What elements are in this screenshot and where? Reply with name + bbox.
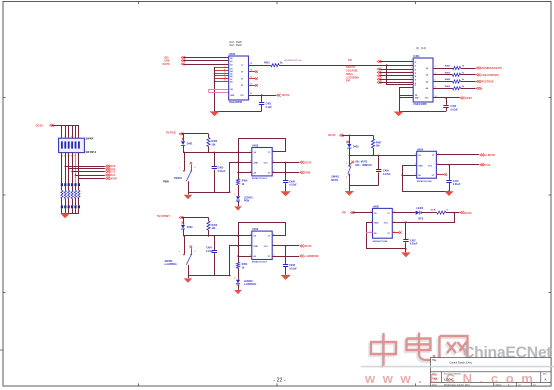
title block bbox=[431, 358, 552, 387]
wire cap branch bbox=[214, 236, 216, 250]
svg-text:e-HARDOn: e-HARDOn bbox=[244, 283, 257, 286]
wire EIP to U401 bbox=[379, 82, 413, 84]
wire loop to inverter 1Y pin bbox=[272, 235, 286, 237]
wire cap to ground bbox=[405, 242, 407, 252]
wire node to inverter input bbox=[183, 235, 252, 237]
wire cap to rail bbox=[378, 172, 380, 185]
wire SW400 column 3 lower bbox=[68, 153, 70, 184]
wire LED to resistor bbox=[422, 212, 437, 214]
capacitor C406 0.01uF bbox=[283, 181, 297, 187]
IC U405 bbox=[370, 204, 394, 243]
node DC3V bbox=[460, 211, 464, 214]
svg-text:D400: D400 bbox=[187, 226, 193, 229]
svg-text:GND: GND bbox=[253, 162, 258, 164]
IC U401 bbox=[413, 54, 433, 106]
svg-text:SN74LVC1G14: SN74LVC1G14 bbox=[252, 261, 268, 264]
svg-text:0.01uF: 0.01uF bbox=[206, 250, 214, 253]
svg-text:DPCSTRCK: DPCSTRCK bbox=[480, 81, 494, 84]
svg-text:I2: I2 bbox=[415, 69, 417, 71]
resistor network column 5 (pads + resistor) bbox=[74, 183, 76, 213]
svg-text:Control Switch & Key: Control Switch & Key bbox=[450, 362, 473, 365]
svg-text:PWR: PWR bbox=[163, 181, 169, 184]
resistor R405 bbox=[445, 85, 465, 90]
wire switch to ground rail bbox=[188, 181, 190, 192]
node DC3V bbox=[480, 163, 484, 166]
svg-text:4: 4 bbox=[224, 68, 225, 71]
wire SW400 column 4 lower bbox=[72, 153, 74, 184]
wire R402 to net label bbox=[461, 68, 476, 70]
svg-text:1: 1 bbox=[411, 60, 412, 62]
wire cap to ground bbox=[285, 267, 287, 275]
switch SW402 bbox=[163, 152, 195, 184]
svg-text:A2: A2 bbox=[230, 63, 232, 66]
wire SW400 column 3 upper bbox=[68, 125, 70, 138]
svg-text:6: 6 bbox=[273, 150, 274, 152]
wire branch to SDA0 bbox=[65, 166, 105, 168]
svg-text:SW-DP: SW-DP bbox=[109, 177, 118, 180]
wire SW400 column 5 upper bbox=[75, 125, 77, 138]
wire branch to SW-DP bbox=[79, 178, 105, 180]
node DC3V bbox=[300, 245, 304, 248]
ground (LED chain) bbox=[234, 206, 242, 210]
svg-text:2: 2 bbox=[370, 211, 371, 213]
wire U400 output 1Y bbox=[249, 65, 271, 67]
wire inverter 2A branch bbox=[238, 256, 252, 258]
resistor R404 1k bbox=[236, 262, 248, 269]
node SW-DP bbox=[105, 177, 109, 180]
wire VCC out bbox=[272, 245, 299, 247]
wire feedback loop over IC bbox=[239, 139, 286, 153]
svg-text:I4: I4 bbox=[415, 75, 417, 78]
wire OE1 pink bbox=[209, 89, 229, 91]
no-connect X bbox=[255, 70, 258, 73]
wire loop to inverter 1Y pin bbox=[272, 151, 286, 153]
svg-text:KEY2: KEY2 bbox=[109, 171, 116, 174]
svg-text:U404: U404 bbox=[417, 147, 424, 151]
wire U400 no-connect stub pin 14 bbox=[249, 78, 256, 80]
svg-text:SN74LVC1G14: SN74LVC1G14 bbox=[252, 177, 268, 180]
wire U400 input stub pin 7 bbox=[215, 81, 229, 83]
svg-text:18: 18 bbox=[250, 63, 252, 65]
svg-text:1k: 1k bbox=[242, 183, 245, 186]
wire bus vertical to ground (U400 inputs) bbox=[214, 68, 216, 111]
wire inverter GND routing bbox=[230, 246, 252, 276]
ground (U401) bbox=[394, 112, 404, 117]
wire U400 VCC to DC3V bbox=[249, 95, 277, 97]
wire LOTSROM to U401 bbox=[379, 79, 413, 81]
svg-text:SA(R)IR/DA/KEYPL: SA(R)IR/DA/KEYPL bbox=[480, 67, 503, 70]
LED LE400 bbox=[416, 207, 424, 220]
svg-text:5V-PCB: 5V-PCB bbox=[166, 131, 176, 135]
wire decoupling cap branch bbox=[285, 246, 287, 264]
svg-text:SA-MUTE: SA-MUTE bbox=[483, 153, 495, 157]
wire SW400 column 1 lower bbox=[61, 153, 63, 184]
no-connect X bbox=[255, 77, 258, 80]
svg-text:8: 8 bbox=[435, 87, 436, 89]
wire branch to KEY2 bbox=[72, 171, 105, 173]
wire switch to ground rail bbox=[188, 265, 190, 276]
resistor R406 1k bbox=[236, 179, 248, 186]
border zone tick left bbox=[0, 98, 6, 351]
svg-text:DC3V: DC3V bbox=[465, 96, 473, 100]
svg-text:IN.: IN. bbox=[480, 87, 484, 90]
wire diode to node bbox=[183, 229, 185, 236]
capacitor C405 0.01uF bbox=[212, 167, 226, 173]
resistor R408 bbox=[430, 210, 448, 215]
wire supply rail bbox=[181, 217, 208, 219]
IC U404 bbox=[415, 147, 439, 183]
svg-text:0.01uF: 0.01uF bbox=[289, 184, 297, 187]
wire resistor to LED bbox=[238, 268, 240, 279]
wire cap branch bbox=[261, 95, 263, 102]
resistor network column 4 (pads + resistor) bbox=[71, 183, 73, 213]
node SA-MUTE bbox=[480, 154, 484, 157]
svg-text:12: 12 bbox=[250, 83, 252, 85]
wire U400 no-connect stub pin 16 bbox=[249, 71, 256, 73]
ground (switch) bbox=[184, 195, 193, 199]
node DC3V bbox=[300, 161, 304, 164]
wire SCPS to U400 pin bbox=[183, 64, 229, 66]
switch SW401 bbox=[331, 155, 372, 181]
svg-text:10k: 10k bbox=[211, 227, 216, 230]
svg-text:U401: U401 bbox=[413, 54, 420, 58]
ground (DIP block) bbox=[60, 213, 70, 218]
wire cap branch bbox=[446, 98, 448, 105]
svg-text:R402: R402 bbox=[445, 65, 451, 68]
svg-text:PR: PR bbox=[342, 211, 346, 215]
wire U400 no-connect stub pin 12 bbox=[249, 85, 256, 87]
svg-text:DC3V: DC3V bbox=[464, 211, 471, 215]
svg-text:e-HARDOn: e-HARDOn bbox=[165, 263, 178, 266]
svg-text:PSW: PSW bbox=[304, 171, 311, 175]
resistor R407 10k bbox=[371, 135, 382, 155]
wire diode to node bbox=[183, 146, 185, 153]
wire diode branch bbox=[183, 134, 185, 141]
wire SW400 column 6 upper bbox=[78, 125, 80, 138]
resistor network column 6 (pads + resistor) bbox=[78, 183, 80, 213]
svg-text:LE400: LE400 bbox=[416, 207, 423, 210]
svg-text:SerR: SerR bbox=[430, 210, 436, 212]
wire U404 2Y stub no-connect bbox=[436, 174, 444, 176]
wire cap branch bbox=[214, 152, 216, 166]
svg-text:U400: U400 bbox=[229, 52, 236, 56]
svg-text:SW DIP-6: SW DIP-6 bbox=[86, 151, 97, 154]
wire U404 output to MUTE bbox=[436, 154, 479, 156]
node DC3V off-page bbox=[277, 94, 281, 97]
wire pink join bbox=[208, 89, 210, 92]
node KEY2 bbox=[105, 170, 109, 173]
svg-text:I3: I3 bbox=[415, 73, 417, 75]
wire ground rail bbox=[188, 275, 230, 277]
svg-text:R401: R401 bbox=[264, 61, 270, 64]
wire U401 VCC to DC3V bbox=[433, 97, 460, 99]
svg-text:1: 1 bbox=[179, 168, 180, 170]
ground (mute switch) bbox=[345, 191, 354, 196]
wire U400 input stub pin 3 bbox=[215, 70, 229, 72]
svg-text:A7: A7 bbox=[230, 78, 232, 81]
capacitor C408 0.01uF bbox=[283, 264, 297, 270]
svg-text:12: 12 bbox=[224, 80, 226, 82]
ground (U405) bbox=[401, 252, 410, 257]
node e-HARDON bbox=[300, 255, 304, 258]
wire inverter GND routing bbox=[230, 163, 252, 193]
svg-text:4: 4 bbox=[273, 253, 274, 256]
svg-text:GND: GND bbox=[230, 95, 235, 97]
watermark separator line bbox=[361, 366, 554, 368]
svg-text:0.01uF: 0.01uF bbox=[453, 183, 461, 186]
svg-text:EIP: EIP bbox=[346, 80, 350, 83]
resistor network column 2 (pads + resistor) bbox=[64, 183, 66, 213]
svg-text:10k: 10k bbox=[211, 143, 216, 146]
svg-text:DC3V: DC3V bbox=[483, 163, 490, 167]
resistor R403 bbox=[445, 72, 465, 77]
wire node to U404 input bbox=[349, 155, 416, 157]
svg-text:6: 6 bbox=[435, 80, 436, 82]
svg-text:I0: I0 bbox=[415, 62, 417, 64]
svg-text:[1] : [14]: [1] : [14] bbox=[416, 46, 426, 50]
wire diode to node bbox=[349, 148, 351, 155]
wire cap to ground rail bbox=[446, 108, 448, 112]
wire supply rail bbox=[181, 133, 208, 135]
svg-text:D402: D402 bbox=[353, 146, 359, 149]
capacitor C409 0.47uF bbox=[376, 170, 391, 176]
svg-text:1k: 1k bbox=[280, 61, 283, 64]
svg-text:VCC: VCC bbox=[264, 246, 269, 248]
svg-text:0.01uF: 0.01uF bbox=[218, 170, 226, 173]
diode D400 bbox=[181, 225, 193, 229]
svg-text:SW402: SW402 bbox=[174, 177, 183, 180]
svg-text:- 22 -: - 22 - bbox=[273, 378, 285, 384]
wire CSB to U400 pin bbox=[183, 60, 229, 62]
svg-text:74HC244PW: 74HC244PW bbox=[413, 103, 427, 106]
ground (inverter) bbox=[280, 191, 290, 196]
svg-text:A5: A5 bbox=[230, 73, 232, 76]
wire U401 GND stub bbox=[400, 97, 414, 99]
wire cap to ground bbox=[449, 183, 451, 191]
svg-text:U405: U405 bbox=[373, 204, 380, 208]
wire U400 input stub pin 6 bbox=[215, 78, 229, 80]
wire U405 2Y stub no-connect bbox=[392, 232, 399, 234]
svg-text:SN74LVC1G04: SN74LVC1G04 bbox=[373, 240, 389, 243]
capacitor C407 0.01uF bbox=[403, 239, 418, 245]
svg-text:A: A bbox=[545, 377, 547, 381]
switch SW400 bbox=[165, 235, 196, 266]
svg-text:4: 4 bbox=[435, 72, 436, 75]
svg-text:DC3V: DC3V bbox=[282, 93, 290, 97]
wire SW400 column 2 upper bbox=[65, 125, 67, 138]
svg-text:20: 20 bbox=[250, 93, 252, 95]
wire U400 input stub pin 5 bbox=[215, 75, 229, 77]
wire branch down to U401 pin 7 bbox=[387, 66, 414, 85]
diode D402 bbox=[347, 144, 359, 149]
ground (switch) bbox=[184, 278, 193, 282]
wire ground rail U400 bbox=[215, 111, 262, 113]
node DPCSTRCK bbox=[476, 80, 480, 83]
capacitor C401 bbox=[259, 103, 272, 109]
ground (U400) bbox=[210, 111, 220, 116]
svg-text:1: 1 bbox=[250, 234, 251, 236]
wire ground rail U401 bbox=[400, 111, 446, 113]
node SDA1 bbox=[105, 174, 109, 177]
wire ISO to U400 pin bbox=[183, 57, 229, 59]
watermark chinese characters (drawn strokes, with soft shadow) bbox=[369, 335, 466, 369]
svg-text:3: 3 bbox=[250, 244, 251, 246]
svg-text:SN74LVC1G04: SN74LVC1G04 bbox=[417, 180, 433, 183]
svg-text:3: 3 bbox=[250, 161, 251, 163]
resistor R405 10k bbox=[207, 134, 218, 152]
wire feedback loop over IC bbox=[239, 223, 286, 236]
node PSW bbox=[300, 171, 304, 174]
wire R401 to U401 pin 2 (long) bbox=[279, 65, 413, 67]
no-ERC mark bbox=[182, 138, 184, 140]
svg-text:2: 2 bbox=[194, 251, 195, 253]
wire branch to SDA1 bbox=[76, 175, 105, 177]
svg-text:ON : MUTE: ON : MUTE bbox=[355, 161, 368, 163]
svg-text:3: 3 bbox=[411, 67, 412, 69]
svg-text:5: 5 bbox=[250, 254, 251, 256]
svg-text:5: 5 bbox=[411, 74, 412, 76]
resistor R401 bbox=[264, 61, 283, 67]
wire cap branch bbox=[378, 155, 380, 169]
svg-text:0.47uF: 0.47uF bbox=[383, 173, 391, 176]
wire output net bbox=[272, 172, 299, 174]
ground (U404) bbox=[444, 191, 453, 196]
wire resistor to LED bbox=[238, 185, 240, 196]
svg-text:2: 2 bbox=[435, 66, 436, 68]
wire VCC out bbox=[272, 162, 299, 164]
svg-text:6: 6 bbox=[273, 234, 274, 236]
svg-text:GND: GND bbox=[418, 165, 423, 167]
resistor network column 3 (pads + resistor) bbox=[68, 183, 70, 213]
wire U401 output pin 6 bbox=[433, 81, 453, 83]
svg-text:1: 1 bbox=[346, 163, 347, 165]
svg-text:2: 2 bbox=[346, 177, 347, 179]
svg-text:PR: PR bbox=[348, 58, 352, 62]
op-amp/inverter U402 bbox=[250, 143, 274, 180]
wire U404 GND loop bbox=[403, 166, 450, 192]
svg-text:10k: 10k bbox=[376, 145, 381, 148]
svg-text:SW404: SW404 bbox=[86, 138, 95, 141]
svg-text:R405: R405 bbox=[445, 85, 451, 88]
wire U401 output pin 4 bbox=[433, 74, 453, 76]
resistor R404 bbox=[445, 78, 465, 83]
wire U401 pin 8 loop bbox=[400, 88, 414, 112]
capacitor C410 0.01uF bbox=[446, 180, 461, 186]
wire diode branch bbox=[349, 135, 351, 143]
svg-text:A1: A1 bbox=[230, 60, 232, 63]
svg-text:0.01uF: 0.01uF bbox=[289, 267, 297, 270]
junction at bus branch bbox=[386, 64, 388, 66]
svg-text:2: 2 bbox=[194, 167, 195, 169]
ground (inverter) bbox=[280, 275, 290, 280]
svg-text:U402: U402 bbox=[252, 143, 259, 147]
wire U404 VCC to DC3V bbox=[436, 164, 479, 166]
wire OE2 pink bbox=[209, 92, 229, 94]
svg-text:1k: 1k bbox=[462, 66, 465, 68]
svg-text:U403: U403 bbox=[252, 227, 259, 231]
resistor network column 1 (pads + resistor) bbox=[61, 183, 63, 213]
svg-text:A0: A0 bbox=[230, 57, 232, 60]
svg-text:R403: R403 bbox=[445, 72, 451, 75]
wire R404 to net label bbox=[461, 81, 476, 83]
svg-text:VCC: VCC bbox=[384, 223, 389, 225]
wire ground rail bbox=[188, 192, 230, 194]
wire U405 output to LED bbox=[392, 212, 415, 214]
wire SW400 column 5 lower bbox=[75, 153, 77, 184]
svg-text:A8: A8 bbox=[230, 81, 232, 84]
wire R403 to net label bbox=[461, 74, 476, 76]
wire cap to ground rail bbox=[214, 170, 216, 192]
svg-text:I7: I7 bbox=[415, 85, 417, 87]
wire R405 to net label bbox=[461, 88, 476, 90]
svg-text:1: 1 bbox=[179, 251, 180, 253]
svg-text:+CH/LOU/DO(D): +CH/LOU/DO(D) bbox=[480, 74, 499, 77]
svg-text:Ref : Ref9: Ref : Ref9 bbox=[230, 43, 243, 47]
svg-text:A4: A4 bbox=[230, 70, 232, 73]
svg-text:VCC: VCC bbox=[428, 165, 433, 167]
svg-text:10: 10 bbox=[224, 77, 226, 79]
wire SW400 column 6 lower bbox=[78, 153, 80, 184]
wire SA/U75 to U401 bbox=[379, 69, 413, 71]
no-connect X bbox=[255, 84, 258, 87]
svg-text:GND: GND bbox=[253, 246, 258, 248]
svg-text:0.1uF: 0.1uF bbox=[266, 106, 273, 109]
svg-text:AD4/SMCLR/IO-S-D: AD4/SMCLR/IO-S-D bbox=[285, 59, 303, 62]
no-ERC mark bbox=[182, 221, 184, 223]
svg-text:I5: I5 bbox=[415, 80, 417, 82]
diode D401 bbox=[181, 141, 193, 145]
wire rail to cap bbox=[349, 185, 378, 187]
wire LED chain vertical bbox=[238, 236, 240, 262]
svg-text:MTS: MTS bbox=[418, 218, 423, 220]
wire diode branch bbox=[183, 218, 185, 225]
node SA(R)IR/DA/KEYPL bbox=[476, 67, 480, 70]
svg-text:1: 1 bbox=[250, 150, 251, 152]
svg-text:0.01uF: 0.01uF bbox=[410, 243, 418, 246]
wire PR to U405 bbox=[353, 212, 373, 214]
svg-text:GND: GND bbox=[374, 223, 379, 225]
svg-text:I1: I1 bbox=[415, 66, 417, 68]
wire cap to ground rail bbox=[214, 253, 216, 275]
wire decoupling cap branch bbox=[285, 162, 287, 180]
capacitor C402 bbox=[443, 105, 458, 111]
node DC3V off-page bbox=[460, 97, 464, 100]
no-ERC mark bbox=[346, 141, 348, 143]
svg-text:14: 14 bbox=[250, 76, 252, 79]
svg-text:GND: GND bbox=[415, 98, 420, 100]
svg-text:VCC: VCC bbox=[264, 162, 269, 164]
svg-text:PON: PON bbox=[244, 200, 249, 203]
svg-text:R404: R404 bbox=[445, 78, 451, 81]
svg-text:8: 8 bbox=[411, 83, 412, 85]
wire supply rail to DIP switch bbox=[52, 125, 79, 127]
wire inverter 2A branch bbox=[238, 172, 252, 174]
wire mute supply rail bbox=[342, 135, 373, 137]
svg-text:1k: 1k bbox=[462, 86, 465, 88]
wire LED to ground bbox=[238, 202, 240, 207]
svg-text:2: 2 bbox=[415, 153, 416, 155]
wire SW400 column 1 upper bbox=[61, 125, 63, 138]
wire VCC loop up to output node bbox=[393, 213, 455, 223]
svg-text:5: 5 bbox=[250, 171, 251, 173]
svg-text:w w w . E C N . c o m: w w w . E C N . c o m bbox=[364, 371, 535, 386]
svg-text:5V-STDBY: 5V-STDBY bbox=[157, 214, 170, 218]
resistor R403 10k bbox=[207, 218, 218, 236]
wire U401 output pin 8 bbox=[433, 88, 453, 90]
svg-text:A3: A3 bbox=[230, 67, 232, 70]
wire to ground bbox=[349, 185, 351, 191]
wire cap to ground rail bbox=[261, 105, 263, 111]
